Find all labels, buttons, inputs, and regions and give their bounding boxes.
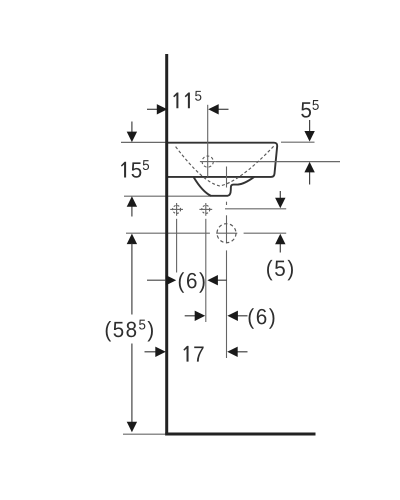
- extension line: fixing hole level, right side: [225, 208, 286, 210]
- node: drain crosshair horizontal arm: [216, 232, 237, 234]
- extension line: basin rim level, right of basin: [281, 141, 315, 143]
- node: drain centre line upper: [226, 167, 228, 188]
- dimension 15.5: rim to trap bottom: [121, 122, 149, 217]
- tap hole crosshair: [200, 156, 216, 167]
- node: drain centre line dash: [226, 202, 228, 205]
- right fixing hole crosshair: [199, 203, 212, 216]
- node: left fixing hole centre line: [176, 219, 178, 273]
- dimension 17: wall to drain: [145, 346, 248, 362]
- dimension (58.5): drain height above floor: [106, 234, 153, 433]
- extension line: basin rim level, left of wall: [121, 141, 166, 143]
- dimension (6): fixing hole to drain: [185, 308, 275, 328]
- node: tap hole centre line: [207, 105, 209, 177]
- node: drain centre line lower: [226, 215, 228, 243]
- extension line: tap hole level, right of basin: [216, 161, 340, 163]
- dimension 5.5: rim to tap hole height: [301, 100, 319, 184]
- dimension (6): fixing hole spacing: [147, 272, 227, 292]
- basin outline: [166, 143, 277, 177]
- extension line: floor level, left of wall: [123, 433, 165, 435]
- left fixing hole crosshair: [170, 203, 183, 216]
- dimension (5): fixing holes to drain height: [267, 191, 293, 280]
- wall line: [165, 54, 168, 436]
- dimension 11.5: wall to tap hole: [147, 91, 229, 115]
- floor line: [165, 433, 315, 436]
- basin trap / bowl underside: [194, 177, 254, 196]
- extension line: trap bottom level, left of wall: [124, 195, 211, 197]
- extension line: drain level, right side: [244, 232, 287, 234]
- extension line: drain level, left of wall: [126, 232, 210, 234]
- node: drain centre line below circle: [226, 250, 228, 358]
- node: right fixing hole centre line: [205, 219, 207, 322]
- dashed interior bowl curve: [176, 146, 274, 186]
- drain hole dashed circle: [217, 224, 236, 243]
